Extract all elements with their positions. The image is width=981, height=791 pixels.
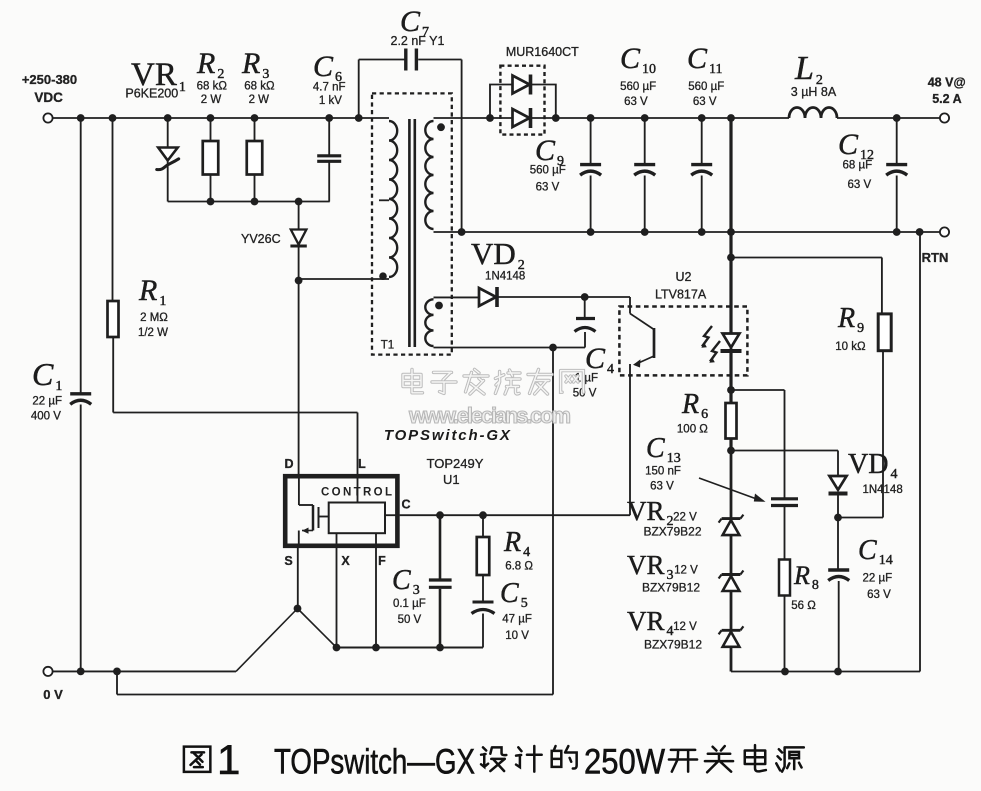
svg-text:L: L bbox=[358, 457, 366, 471]
svg-text:63 V: 63 V bbox=[536, 182, 560, 194]
svg-text:1N4148: 1N4148 bbox=[485, 271, 525, 283]
svg-text:100 Ω: 100 Ω bbox=[677, 424, 708, 436]
svg-text:0 V: 0 V bbox=[43, 687, 63, 702]
svg-text:48 V@: 48 V@ bbox=[928, 76, 966, 90]
svg-text:1: 1 bbox=[217, 736, 240, 783]
svg-text:C: C bbox=[401, 498, 410, 512]
svg-text:VDC: VDC bbox=[34, 90, 63, 105]
svg-text:1 kV: 1 kV bbox=[319, 95, 342, 107]
svg-text:2 W: 2 W bbox=[201, 94, 222, 106]
svg-text:2.2 nF Y1: 2.2 nF Y1 bbox=[391, 34, 445, 48]
svg-text:2 MΩ: 2 MΩ bbox=[140, 312, 168, 324]
svg-text:CONTROL: CONTROL bbox=[321, 486, 392, 498]
svg-text:4.7 nF: 4.7 nF bbox=[313, 82, 346, 94]
svg-text:www.elecians.com: www.elecians.com bbox=[408, 403, 571, 428]
svg-text:+250-380: +250-380 bbox=[22, 72, 77, 87]
svg-text:560 µF: 560 µF bbox=[530, 165, 566, 177]
svg-text:1/2 W: 1/2 W bbox=[138, 327, 168, 339]
svg-text:63 V: 63 V bbox=[693, 96, 717, 108]
svg-text:D: D bbox=[284, 457, 293, 471]
svg-text:56 Ω: 56 Ω bbox=[791, 600, 816, 612]
svg-text:400 V: 400 V bbox=[31, 411, 61, 423]
svg-text:1N4148: 1N4148 bbox=[862, 484, 902, 496]
svg-text:TOPSwitch-GX: TOPSwitch-GX bbox=[384, 427, 511, 444]
svg-text:12 V: 12 V bbox=[674, 565, 698, 577]
svg-text:63 V: 63 V bbox=[847, 179, 871, 191]
svg-text:F: F bbox=[378, 554, 386, 568]
svg-text:6.8 Ω: 6.8 Ω bbox=[505, 561, 533, 573]
svg-text:BZX79B12: BZX79B12 bbox=[642, 581, 700, 595]
svg-text:10 V: 10 V bbox=[505, 630, 529, 642]
svg-text:BZX79B22: BZX79B22 bbox=[643, 525, 701, 539]
svg-text:10 kΩ: 10 kΩ bbox=[835, 341, 866, 353]
svg-text:P6KE200: P6KE200 bbox=[125, 87, 178, 101]
svg-text:3 µH 8A: 3 µH 8A bbox=[791, 85, 837, 99]
svg-text:22 µF: 22 µF bbox=[32, 396, 62, 408]
svg-text:150 nF: 150 nF bbox=[645, 466, 681, 478]
svg-text:68 µF: 68 µF bbox=[842, 160, 872, 172]
svg-text:S: S bbox=[284, 554, 292, 568]
svg-text:TOPswitch—GX: TOPswitch—GX bbox=[274, 743, 475, 782]
svg-text:22 V: 22 V bbox=[673, 512, 697, 524]
svg-text:12 V: 12 V bbox=[673, 621, 697, 633]
svg-text:5.2 A: 5.2 A bbox=[932, 92, 961, 106]
svg-text:560 µF: 560 µF bbox=[620, 81, 656, 93]
svg-text:68 kΩ: 68 kΩ bbox=[244, 81, 275, 93]
svg-text:22 µF: 22 µF bbox=[862, 573, 892, 585]
svg-text:YV26C: YV26C bbox=[241, 232, 281, 246]
svg-text:LTV817A: LTV817A bbox=[655, 288, 707, 302]
svg-text:63 V: 63 V bbox=[624, 96, 648, 108]
svg-text:RTN: RTN bbox=[922, 250, 949, 265]
svg-text:TOP249Y: TOP249Y bbox=[427, 456, 484, 471]
svg-text:U1: U1 bbox=[443, 472, 460, 487]
svg-text:U2: U2 bbox=[676, 270, 692, 284]
svg-text:47 µF: 47 µF bbox=[502, 614, 532, 626]
svg-text:68 kΩ: 68 kΩ bbox=[197, 81, 228, 93]
svg-text:BZX79B12: BZX79B12 bbox=[644, 638, 702, 652]
svg-text:50 V: 50 V bbox=[398, 614, 422, 626]
svg-text:MUR1640CT: MUR1640CT bbox=[506, 45, 579, 59]
svg-text:250W: 250W bbox=[584, 743, 665, 782]
svg-text:T1: T1 bbox=[381, 340, 394, 352]
svg-text:2 W: 2 W bbox=[249, 94, 270, 106]
svg-text:63 V: 63 V bbox=[867, 589, 891, 601]
svg-text:0.1 µF: 0.1 µF bbox=[393, 598, 426, 610]
svg-text:X: X bbox=[341, 554, 350, 568]
svg-text:63 V: 63 V bbox=[650, 481, 674, 493]
svg-text:560 µF: 560 µF bbox=[688, 81, 724, 93]
